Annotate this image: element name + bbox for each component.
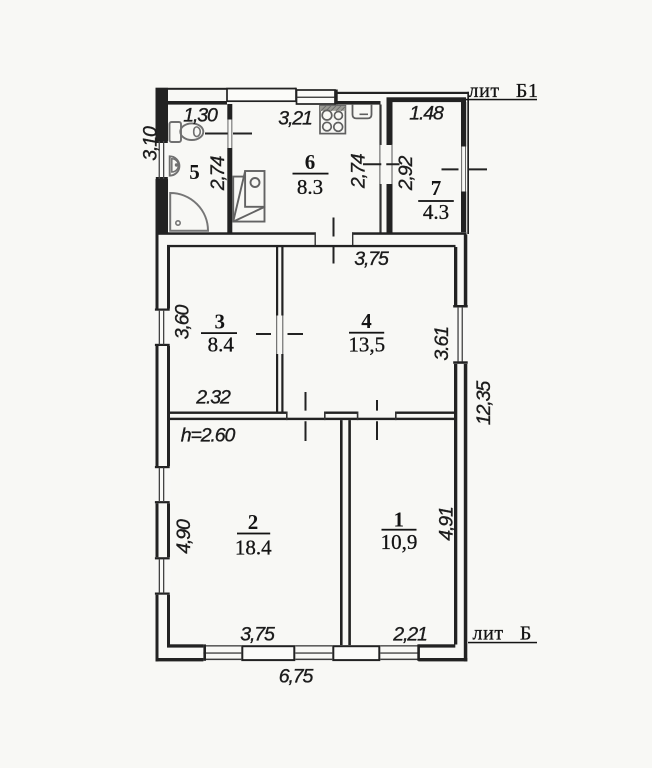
svg-text:4,91: 4,91: [436, 507, 458, 541]
wall room7 east thick lower segment: [461, 192, 466, 233]
door dash hall to room2: [305, 392, 307, 441]
svg-text:18.4: 18.4: [235, 536, 272, 560]
svg-text:1,30: 1,30: [183, 105, 218, 127]
svg-text:3,75: 3,75: [354, 248, 389, 270]
window S5: [380, 644, 420, 660]
svg-text:5: 5: [189, 160, 200, 184]
window room2 west lower: [155, 557, 171, 595]
room 2 number and area: [235, 510, 272, 560]
toilet bowl room5: [180, 123, 203, 140]
wall room7 north thick: [387, 97, 467, 102]
room 1 number and area: [381, 508, 418, 554]
wall middle bottom line: [167, 418, 456, 420]
wire annex outer contour east: [467, 92, 469, 234]
shower tray room5: [170, 193, 208, 231]
svg-text:8.3: 8.3: [297, 175, 323, 199]
door jambs in middle wall: [286, 412, 397, 421]
window K2 in kitchen north wall: [297, 90, 338, 105]
window S4 box: [333, 646, 379, 660]
wall middle top line segment west: [167, 412, 287, 414]
wall north inner line: [167, 245, 456, 247]
wire annex outer contour top-west: [156, 88, 297, 90]
svg-text:лит Б: лит Б: [473, 623, 533, 645]
toilet tank room5: [170, 122, 182, 142]
window in annex west wall: [156, 141, 168, 179]
door dash room5/6: [205, 133, 252, 135]
room 6 number and area: [293, 150, 329, 199]
door jamb kitchen-hall west: [315, 232, 316, 247]
wall room6/7 west thin line upper: [379, 105, 381, 146]
wall room7 east thick upper segment: [461, 102, 466, 147]
window room2 west upper: [155, 466, 171, 503]
window S2 box: [242, 646, 294, 660]
wall room6/7 west thin line lower: [379, 184, 381, 233]
wall middle top line segment east: [395, 412, 456, 414]
wall room5/6 north inner thick: [168, 101, 227, 105]
window S1: [203, 644, 241, 660]
kitchen boiler unit: [233, 171, 264, 222]
svg-text:2,92: 2,92: [395, 155, 417, 191]
wall kitchen north inner thick east segment: [338, 101, 381, 105]
room 3 number and area: [201, 310, 237, 357]
svg-text:7: 7: [431, 176, 442, 200]
svg-text:3: 3: [215, 310, 226, 334]
door channel room7 east: [461, 147, 466, 192]
svg-text:8.4: 8.4: [208, 332, 235, 356]
door dash room3 to room4 west tick: [256, 333, 271, 335]
svg-text:2,74: 2,74: [207, 155, 229, 191]
wall south outer line east segment: [418, 658, 467, 661]
wall room5/6 partition upper segment: [227, 104, 232, 120]
svg-text:1.48: 1.48: [409, 103, 444, 125]
svg-text:2.32: 2.32: [195, 387, 231, 409]
wall room6/7 east thick line lower: [387, 184, 393, 233]
room 7 number and area: [418, 176, 454, 224]
wall room5/6 partition lower segment: [227, 148, 232, 233]
label lit B1: [466, 80, 539, 102]
svg-text:6,75: 6,75: [279, 666, 314, 688]
svg-text:лит Б1: лит Б1: [469, 80, 539, 102]
wall north outer line east of kitchen door: [352, 232, 467, 235]
door dash room6/7: [363, 163, 400, 165]
room 4 number and area: [348, 309, 385, 357]
window K1 in kitchen north wall: [227, 89, 296, 102]
svg-text:h=2.60: h=2.60: [181, 425, 236, 447]
svg-text:2,21: 2,21: [392, 623, 427, 645]
wall west outer line: [156, 233, 171, 661]
svg-text:2,74: 2,74: [348, 153, 370, 189]
door dash room3 to room4 east tick: [288, 333, 304, 335]
svg-text:3.61: 3.61: [431, 327, 453, 361]
wall room6/7 east thick line upper: [387, 102, 393, 145]
wall annex west (room 5 outer wall) upper part: [156, 88, 169, 141]
svg-text:12,35: 12,35: [473, 381, 495, 426]
door channel room5/6: [228, 120, 233, 149]
wall south inner line east segment: [418, 644, 455, 647]
svg-text:13,5: 13,5: [348, 333, 385, 357]
wall north outer line west of kitchen door: [156, 232, 316, 235]
svg-text:4: 4: [361, 309, 372, 333]
door channel room6/7: [379, 145, 392, 185]
label lit B: [468, 623, 537, 645]
door dash hall to room1: [376, 400, 378, 440]
svg-text:3,75: 3,75: [240, 624, 275, 646]
wall south inner line west segment: [167, 644, 203, 647]
svg-text:3,60: 3,60: [172, 304, 194, 339]
door jamb kitchen-hall east: [352, 232, 353, 247]
wire annex outer contour top-east: [295, 92, 470, 94]
door dash kitchen to hall: [333, 218, 335, 264]
wall annex west lower part: [156, 179, 169, 233]
svg-text:6: 6: [305, 150, 316, 174]
wire annex outer contour step: [295, 88, 297, 94]
toilet bowl inner: [194, 127, 201, 137]
washbasin room5: [170, 156, 180, 175]
wall south outer line west segment: [156, 658, 204, 661]
window S3: [295, 645, 332, 660]
svg-text:10,9: 10,9: [381, 530, 418, 554]
stove kitchen: [320, 106, 345, 134]
wall middle top line segment center: [324, 412, 358, 414]
window room3 west: [155, 309, 171, 347]
svg-text:4,90: 4,90: [173, 519, 195, 554]
svg-text:3,21: 3,21: [278, 108, 312, 130]
door dash room7 exterior: [442, 168, 488, 170]
kitchen sink: [353, 105, 372, 119]
window room4 east: [453, 305, 469, 364]
svg-text:2: 2: [248, 510, 259, 534]
svg-text:1: 1: [393, 508, 404, 532]
svg-text:3,10: 3,10: [140, 126, 162, 161]
svg-text:4.3: 4.3: [423, 200, 449, 224]
